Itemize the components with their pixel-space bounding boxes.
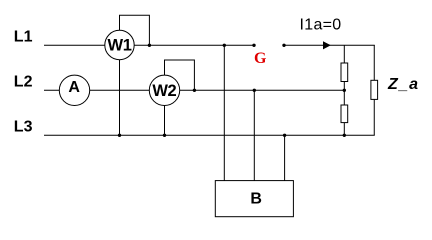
label I1a=0 xyxy=(300,16,342,33)
switch terminal left (node G) xyxy=(252,44,255,47)
wire L1 right segment (from switch to load, with current arrow) xyxy=(284,44,375,46)
junction W2 current path on L3 xyxy=(163,134,166,137)
wire from L1 node down to box B xyxy=(223,45,225,181)
svg-text:L3: L3 xyxy=(14,119,33,136)
ammeter A xyxy=(59,75,89,105)
wire from L3 node down to box B xyxy=(284,135,286,181)
label L1 xyxy=(14,28,33,45)
wire L3 xyxy=(44,134,375,136)
wire load branch a: L1 tap to resistor xyxy=(343,45,345,63)
junction L3 to B-wire xyxy=(283,134,286,137)
svg-text:W1: W1 xyxy=(108,37,132,55)
box B xyxy=(215,181,293,217)
svg-text:B: B xyxy=(250,190,262,207)
wire L2 (through A and W2 to load) xyxy=(44,89,344,91)
wire W1 current path down to L3 xyxy=(119,45,121,135)
wire from L2 node down to box B xyxy=(253,90,255,181)
junction L3 to load resistors xyxy=(343,134,346,137)
wire L1 left segment (through W1, ends at switch terminal G) xyxy=(44,44,254,46)
wire W2 voltage-coil loop xyxy=(165,60,195,90)
label L2 xyxy=(14,74,33,91)
resistor Z_a right branch xyxy=(371,80,378,99)
wattmeter W1 xyxy=(105,30,134,59)
load label Z_a xyxy=(387,76,419,93)
junction L2 to load resistors xyxy=(343,89,346,92)
svg-text:A: A xyxy=(68,79,80,96)
junction L1 to B-wire xyxy=(223,44,226,47)
resistor between L2 and L3 xyxy=(341,105,348,123)
svg-text:L1: L1 xyxy=(14,28,33,45)
wire right branch from L1 corner down xyxy=(373,45,375,80)
junction L2 to B-wire xyxy=(253,89,256,92)
junction W1 current path on L3 xyxy=(118,134,121,137)
switch terminal right xyxy=(282,44,285,47)
wire right branch down to L3 corner xyxy=(373,99,375,135)
svg-text:G: G xyxy=(254,50,267,67)
wire W1 voltage-coil loop xyxy=(120,15,150,45)
wire second resistor to L3 node xyxy=(343,123,345,135)
wire W2 current path down to L3 xyxy=(164,90,166,135)
wattmeter W2 xyxy=(149,75,179,105)
junction W1 loop on L1 xyxy=(148,44,151,47)
node G label xyxy=(254,50,267,67)
wire L2 node to second resistor xyxy=(343,90,345,105)
svg-text:Z_a: Z_a xyxy=(387,76,419,93)
svg-text:W2: W2 xyxy=(152,82,176,100)
label L3 xyxy=(14,119,33,136)
svg-text:I1a=0: I1a=0 xyxy=(300,16,342,33)
wire resistor to L2 node xyxy=(343,82,345,91)
svg-text:L2: L2 xyxy=(14,74,33,91)
resistor between L1 tap and L2 xyxy=(341,63,348,82)
current arrow I1a xyxy=(323,41,331,49)
junction W2 loop on L2 xyxy=(193,89,196,92)
